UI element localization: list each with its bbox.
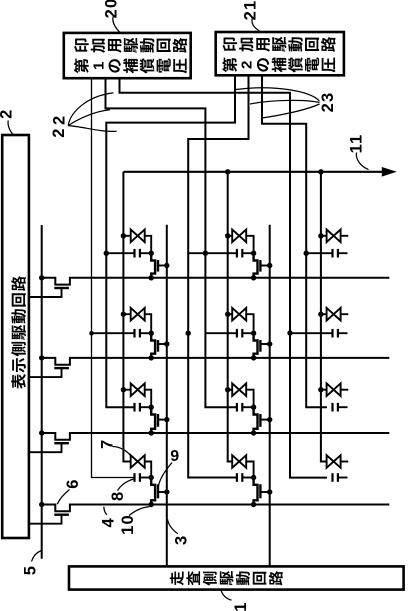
wire diode bus column2 <box>228 172 233 462</box>
diode pair D33 (two-terminal MIM element) <box>321 383 348 396</box>
wire cap lead C11 to bus <box>106 252 134 254</box>
node dot pixel node 12 <box>149 331 154 336</box>
junction dot TFT source row2 col2 <box>251 355 256 360</box>
wire scan line column1 (from scan-side circuit, label 3) <box>166 225 168 567</box>
label 7 <box>98 439 131 457</box>
box U2 display-side drive circuit <box>2 135 29 538</box>
svg-text:6: 6 <box>64 478 82 488</box>
wire 1st-compensation bus B (box U20 to column2 capacitors) <box>106 78 237 407</box>
svg-text:2: 2 <box>239 61 256 69</box>
node dot pixel node 23 <box>251 405 256 410</box>
svg-text:2: 2 <box>50 115 68 125</box>
node dot on line 11 col2 <box>225 169 230 174</box>
svg-text:3: 3 <box>172 535 190 545</box>
diode pair D14 (two-terminal MIM element) <box>123 455 151 477</box>
diode pair D34 (two-terminal MIM element) <box>321 455 348 468</box>
label 20 <box>102 0 120 33</box>
box U20 first-compensation-voltage applying drive circuit <box>64 33 191 78</box>
label 2 <box>0 109 16 135</box>
transistor Q24 (pixel TFT) <box>254 478 270 505</box>
diode pair D21 (two-terminal MIM element) <box>228 230 254 254</box>
diode pair D31 (two-terminal MIM element) <box>321 230 348 243</box>
transistor QL4 gate (left series TFT, driven by display-side circuit) <box>29 515 69 524</box>
svg-text:10: 10 <box>119 514 137 535</box>
label 6 <box>57 478 82 504</box>
wire scan line column2 <box>269 225 271 567</box>
wire 2nd-compensation bus W2 (box U21 to column2 capacitors) <box>188 75 248 477</box>
junction dot TFT source row3 col1 <box>149 430 154 435</box>
capacitor C34 <box>333 473 348 482</box>
junction dot diode bus column1 row1 <box>121 233 126 238</box>
junction dot bus C row2 cap <box>287 330 292 335</box>
junction dot line5 row2 <box>39 355 44 360</box>
capacitor C24 <box>237 473 254 482</box>
svg-text:8: 8 <box>109 491 127 501</box>
capacitor C14 <box>135 473 152 482</box>
node dot pixel node 22 <box>251 331 256 336</box>
wire cap lead C22 to bus <box>205 332 237 334</box>
capacitor C11 <box>135 249 152 258</box>
capacitor C32 <box>333 329 348 338</box>
node dot pixel node 13 <box>149 405 154 410</box>
node dot on line 11 col3 <box>318 169 323 174</box>
diode pair D11 (two-terminal MIM element) <box>123 230 151 254</box>
junction dot diode bus column3 row2 <box>318 312 323 317</box>
diode pair D22 (two-terminal MIM element) <box>228 308 254 333</box>
transistor Q12 (pixel TFT) <box>151 333 167 358</box>
junction dot diode bus column2 row1 <box>225 233 230 238</box>
label 23 <box>236 88 337 118</box>
junction dot bus W3 row1 cap <box>304 251 309 256</box>
node dot pixel node 24 <box>251 475 256 480</box>
wire node-11 common line with arrowhead <box>123 167 396 177</box>
transistor Q13 (pixel TFT) <box>151 407 167 433</box>
svg-text:23: 23 <box>319 92 337 113</box>
capacitor C23 <box>237 403 254 412</box>
label 10 <box>119 507 150 535</box>
wire 2nd-compensation bus W1 (box U21 to column1 capacitors) <box>106 75 235 407</box>
diode pair D24 (two-terminal MIM element) <box>228 455 254 477</box>
box U1 scan-side drive circuit <box>69 566 404 589</box>
junction dot line5 row3 <box>39 430 44 435</box>
junction dot gate on scan line col2 row2 <box>267 341 272 346</box>
wire cap lead C21 to bus <box>188 252 237 254</box>
capacitor C21 <box>237 249 254 258</box>
wire diode bus column1 <box>123 172 130 462</box>
box U21 second-compensation-voltage applying drive circuit <box>216 32 344 75</box>
junction dot diode bus column1 row3 <box>121 387 126 392</box>
wire row line 3 (display electrode line) <box>42 433 390 440</box>
wire cap lead C31 to bus <box>306 252 332 254</box>
transistor QL2 gate (left series TFT, driven by display-side circuit) <box>29 368 69 377</box>
svg-text:4: 4 <box>100 517 118 527</box>
wire 1st-compensation bus C (box U20 to column3 capacitors) <box>120 78 328 477</box>
node dot pixel node 21 <box>251 251 256 256</box>
junction dot gate on scan line col1 row2 <box>164 341 169 346</box>
junction dot line5 row4 <box>39 502 44 507</box>
wire common line 5 (left vertical bus) <box>41 225 43 559</box>
junction dot gate on scan line col2 row3 <box>267 417 272 422</box>
wire diode bus column3 <box>321 172 327 462</box>
svg-text:5: 5 <box>22 565 40 575</box>
svg-text:1: 1 <box>232 601 250 611</box>
junction dot gate on scan line col1 row4 <box>164 489 169 494</box>
junction dot bus A row2 cap <box>89 331 94 336</box>
junction dot diode bus column3 row1 <box>318 233 323 238</box>
junction dot bus W1 row1 cap <box>104 251 109 256</box>
junction dot line5 row1 <box>39 275 44 280</box>
label 9 <box>158 448 179 490</box>
capacitor C13 <box>135 403 152 412</box>
label 4 <box>100 507 118 528</box>
label 11 <box>347 134 368 170</box>
wire cap lead C12 to bus <box>92 332 135 334</box>
wire 2nd-compensation bus W3 (box U21 to column3 capacitors) <box>262 75 327 407</box>
svg-text:7: 7 <box>98 439 116 449</box>
junction dot gate on scan line col2 row4 <box>267 489 272 494</box>
label 21 <box>241 0 259 31</box>
label 8 <box>109 479 133 501</box>
junction dot gate on scan line col1 row3 <box>164 417 169 422</box>
node dot pixel node 14 <box>149 475 154 480</box>
junction dot TFT source row2 col1 <box>149 355 154 360</box>
transistor Q22 (pixel TFT) <box>254 333 270 358</box>
transistor Q11 (pixel TFT) <box>151 253 167 278</box>
svg-text:1: 1 <box>90 62 107 70</box>
svg-text:20: 20 <box>102 0 120 18</box>
junction dot TFT source row3 col2 <box>251 430 256 435</box>
svg-text:11: 11 <box>347 134 365 154</box>
junction dot diode bus column2 row2 <box>225 312 230 317</box>
diode pair D13 (two-terminal MIM element) <box>123 383 151 407</box>
wire row line 2 (display electrode line) <box>42 358 390 365</box>
label 5 <box>22 551 42 576</box>
junction dot bus W2 row2 cap <box>186 331 191 336</box>
wire row line 1 (display electrode line) <box>42 278 390 285</box>
label 3 <box>168 519 191 545</box>
capacitor C12 <box>135 329 152 338</box>
transistor Q23 (pixel TFT) <box>254 407 270 433</box>
wire row line 4 (display electrode line) <box>42 505 390 512</box>
junction dot bus B row1 cap <box>203 251 208 256</box>
wire 1st-compensation bus A (box U20 to column1 capacitors, thin) <box>92 78 135 477</box>
diode pair D32 (two-terminal MIM element) <box>321 308 348 321</box>
junction dot TFT source row1 col1 <box>149 275 154 280</box>
junction dot diode bus column3 row3 <box>318 387 323 392</box>
junction dot TFT source row4 col1 <box>149 502 154 507</box>
junction dot TFT source row4 col2 <box>251 502 256 507</box>
capacitor C33 <box>333 403 348 412</box>
label 22 <box>50 93 116 138</box>
capacitor C22 <box>237 329 254 338</box>
junction dot TFT source row1 col2 <box>251 275 256 280</box>
junction dot gate on scan line col1 row1 <box>164 263 169 268</box>
diode pair D12 (two-terminal MIM element) <box>123 308 151 333</box>
node dot pixel node 11 <box>149 251 154 256</box>
transistor QL3 gate (left series TFT, driven by display-side circuit) <box>29 443 69 452</box>
junction dot diode bus column1 row2 <box>121 312 126 317</box>
transistor Q21 (pixel TFT) <box>254 253 270 278</box>
transistor Q14 (pixel TFT) <box>151 478 167 505</box>
svg-text:2: 2 <box>0 109 16 119</box>
svg-text:2: 2 <box>50 127 68 137</box>
diode pair D23 (two-terminal MIM element) <box>228 383 254 407</box>
capacitor C31 <box>333 249 348 258</box>
transistor QL1 gate (left series TFT, driven by display-side circuit) <box>29 288 69 297</box>
svg-text:21: 21 <box>241 0 259 20</box>
wire cap lead C32 to bus <box>290 332 333 334</box>
label 1 <box>221 590 250 611</box>
junction dot gate on scan line col2 row1 <box>267 263 272 268</box>
junction dot diode bus column2 row3 <box>225 387 230 392</box>
